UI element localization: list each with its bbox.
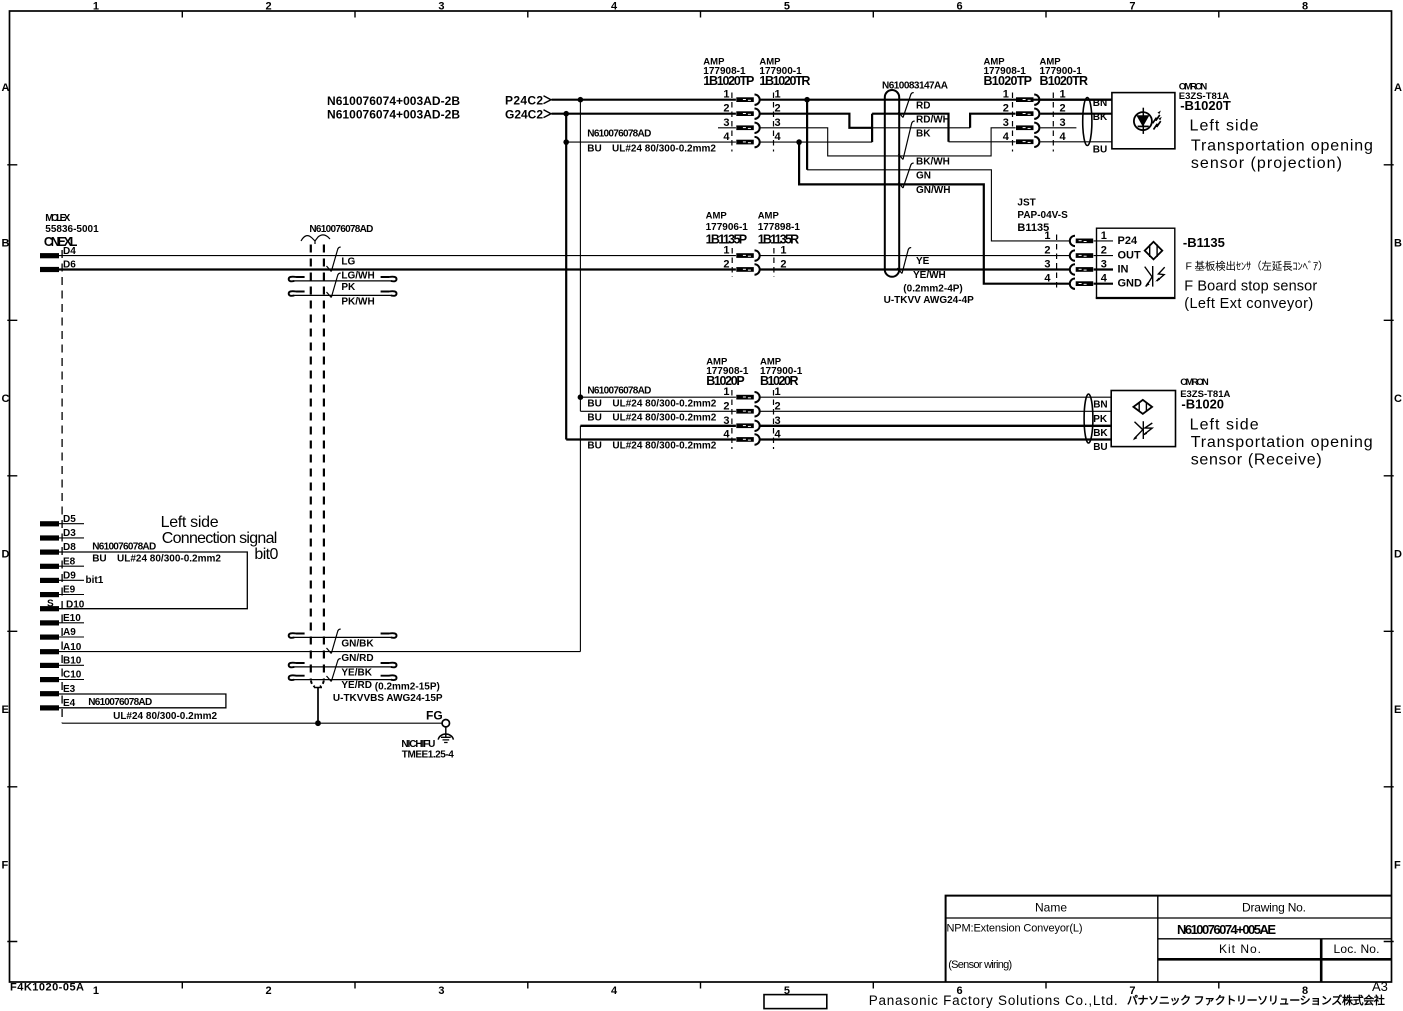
svg-text:B10: B10: [63, 656, 82, 667]
svg-text:1B1020TR: 1B1020TR: [759, 74, 810, 88]
svg-text:sensor (Receive): sensor (Receive): [1191, 452, 1322, 469]
wire B1020P pin2: [580, 410, 736, 412]
svg-text:D: D: [2, 549, 10, 561]
svg-text:4: 4: [723, 131, 730, 143]
wire RD/WH row2 continuation: [872, 114, 948, 142]
svg-text:2: 2: [1044, 245, 1050, 257]
B1020TP pin2: [1016, 109, 1039, 119]
svg-text:B: B: [1394, 238, 1402, 250]
svg-text:Left side: Left side: [1190, 417, 1259, 434]
svg-text:YE: YE: [916, 256, 930, 267]
B1020P pin4: [736, 434, 759, 444]
svg-text:BU: BU: [587, 413, 601, 424]
pin D5: [40, 521, 59, 526]
svg-text:UL#24 80/300-0.2mm2: UL#24 80/300-0.2mm2: [113, 711, 217, 722]
svg-text:3: 3: [723, 415, 729, 427]
svg-text:bit1: bit1: [86, 575, 104, 586]
jumper wire E3 to E4: [59, 694, 226, 708]
svg-text:Name: Name: [1035, 901, 1067, 915]
wire G24C2 row2: [552, 113, 736, 115]
frame column ticks bottom: [182, 982, 1219, 989]
svg-text:UL#24 80/300-0.2mm2: UL#24 80/300-0.2mm2: [612, 413, 716, 424]
svg-text:N610076074+003AD-2B: N610076074+003AD-2B: [327, 94, 460, 108]
connector 1B1020TP boundary dashed: [731, 93, 733, 152]
svg-text:YE/BK: YE/BK: [341, 668, 372, 679]
wire P24C2 drop to B1020P pins 1-2: [579, 100, 581, 412]
svg-text:1: 1: [723, 89, 729, 101]
svg-text:N610076078AD: N610076078AD: [309, 224, 373, 235]
svg-text:-B1135: -B1135: [1183, 235, 1225, 250]
junction shield/FG: [315, 720, 321, 726]
svg-text:P24: P24: [1118, 235, 1138, 247]
svg-text:7: 7: [1129, 1, 1135, 13]
junction P24 at B1020P pin1: [578, 394, 584, 400]
wire A10 rise to B1020P pin3: [579, 426, 581, 652]
svg-text:B1020TR: B1020TR: [1040, 74, 1089, 88]
wire BK to sensor B1020T: [1040, 113, 1112, 115]
svg-text:N610076078AD: N610076078AD: [587, 386, 651, 397]
svg-text:BK: BK: [916, 129, 931, 140]
pin C10: [40, 677, 59, 682]
svg-text:3: 3: [1003, 117, 1009, 129]
svg-text:Kit No.: Kit No.: [1219, 942, 1261, 956]
svg-text:E8: E8: [63, 556, 76, 567]
wire B1020P pin3 (BK): [580, 425, 736, 427]
svg-text:1B1020TP: 1B1020TP: [703, 74, 754, 88]
wire to 1B1020TP pin4: [566, 141, 736, 143]
cable sheath N610083147AA: [885, 90, 899, 270]
svg-text:3: 3: [723, 117, 729, 129]
junction GN/WH branch: [796, 139, 802, 145]
svg-text:Transportation opening: Transportation opening: [1191, 138, 1373, 155]
pigtail PK/WH: [289, 291, 305, 296]
wire GN horizontal to JST pin1: [807, 170, 1070, 241]
wire color leader PK pair: [331, 273, 340, 297]
svg-text:E3: E3: [63, 684, 76, 695]
svg-text:PAP-04V-S: PAP-04V-S: [1017, 210, 1068, 221]
svg-text:1: 1: [723, 386, 729, 398]
svg-text:2: 2: [266, 985, 272, 997]
pigtail YE/RD: [289, 675, 305, 680]
svg-text:1: 1: [1101, 230, 1107, 242]
svg-text:BN: BN: [1093, 400, 1107, 411]
frame row ticks right: [1384, 165, 1394, 942]
svg-text:D: D: [1394, 549, 1402, 561]
pin D4: [40, 253, 59, 258]
wire BU to sensor B1020T: [1040, 141, 1112, 143]
svg-text:N610076078AD: N610076078AD: [92, 542, 156, 553]
wire vertical row2-row4: [871, 114, 873, 142]
svg-text:BK: BK: [1093, 112, 1108, 123]
svg-text:AMP: AMP: [758, 211, 780, 222]
svg-text:F: F: [1394, 860, 1401, 872]
svg-text:D5: D5: [63, 514, 76, 525]
leader GN pair: [903, 163, 914, 188]
JST pin4: [1070, 279, 1093, 289]
wire GN drop: [806, 100, 808, 170]
JST pin3: [1070, 264, 1093, 274]
svg-text:1: 1: [775, 386, 781, 398]
svg-text:RD: RD: [916, 100, 930, 111]
svg-text:GN/BK: GN/BK: [341, 638, 374, 649]
svg-text:P24C2: P24C2: [505, 94, 543, 108]
svg-text:2: 2: [1003, 103, 1009, 115]
connector 1B1020TR boundary dashed: [773, 93, 775, 152]
junction P24C2 branch: [578, 97, 584, 103]
svg-text:BK/WH: BK/WH: [916, 157, 950, 168]
svg-text:3: 3: [1044, 259, 1050, 271]
1B1020TP pin2: [736, 109, 759, 119]
B1135 emitter diamond: [1145, 242, 1163, 260]
junction at 1B1020TP pin4: [563, 139, 569, 145]
connector B1020P boundary dashed: [731, 390, 733, 449]
svg-text:B1020TP: B1020TP: [984, 74, 1033, 88]
pin D3: [40, 535, 59, 540]
svg-text:BU: BU: [1093, 145, 1107, 156]
svg-text:G24C2: G24C2: [505, 107, 543, 121]
svg-text:4: 4: [611, 985, 618, 997]
svg-text:GN/RD: GN/RD: [341, 653, 373, 664]
wire BN to sensor B1020: [760, 396, 1111, 398]
pin D8: [40, 550, 59, 555]
svg-text:bit0: bit0: [254, 546, 278, 563]
frame row letters right: [1394, 82, 1402, 872]
svg-text:F: F: [2, 860, 9, 872]
svg-text:E9: E9: [63, 585, 76, 596]
svg-text:55836-5001: 55836-5001: [45, 224, 99, 235]
frame column numbers bottom: [93, 985, 1308, 997]
svg-text:A: A: [1394, 82, 1402, 94]
svg-text:C: C: [2, 393, 10, 405]
svg-text:UL#24 80/300-0.2mm2: UL#24 80/300-0.2mm2: [117, 553, 221, 564]
svg-text:GN: GN: [916, 171, 931, 182]
pin E3: [40, 691, 59, 696]
svg-text:BK: BK: [1093, 428, 1108, 439]
wire FG: [62, 722, 442, 724]
pin D6: [40, 267, 59, 272]
svg-text:U-TKVVBS AWG24-15P: U-TKVVBS AWG24-15P: [333, 693, 443, 704]
frame column ticks top: [182, 11, 1219, 18]
stub pin3 B1020TR: [1040, 127, 1076, 129]
svg-text:E10: E10: [63, 613, 81, 624]
pigtail PK: [289, 277, 305, 282]
cable sheath oval C: [1084, 394, 1093, 443]
svg-text:GND: GND: [1118, 278, 1143, 290]
svg-text:N610076074+005AE: N610076074+005AE: [1177, 922, 1276, 937]
wire BK/WH from 1B1020TR pin3: [760, 128, 1015, 156]
svg-text:(Sensor wiring): (Sensor wiring): [948, 959, 1012, 971]
connector 1B1135R boundary dashed: [773, 248, 775, 277]
wire color leader LG pair: [331, 247, 340, 271]
frame row letters left: [2, 82, 10, 872]
shield drain wire to FG: [317, 688, 319, 724]
svg-text:1: 1: [93, 985, 99, 997]
B1020TP pin4: [1016, 137, 1039, 147]
pin E9: [40, 592, 59, 597]
svg-text:OMRON: OMRON: [1180, 377, 1209, 388]
JST pin1: [1070, 236, 1093, 246]
cable sheath oval top: [1083, 98, 1092, 146]
frame row ticks left: [7, 165, 17, 942]
svg-text:UL#24 80/300-0.2mm2: UL#24 80/300-0.2mm2: [612, 441, 716, 452]
svg-text:PK: PK: [1093, 414, 1108, 425]
B1020P pin2: [736, 406, 759, 416]
svg-text:3: 3: [775, 117, 781, 129]
B1135 receiver symbol: [1152, 266, 1154, 287]
svg-text:LG: LG: [341, 257, 355, 268]
svg-text:YE/WH: YE/WH: [913, 270, 946, 281]
svg-text:(0.2mm2-4P): (0.2mm2-4P): [903, 283, 962, 294]
svg-text:N610076074+003AD-2B: N610076074+003AD-2B: [327, 108, 460, 122]
svg-text:B: B: [2, 238, 10, 250]
svg-text:3: 3: [438, 1, 444, 13]
B1020TP pin3: [1016, 123, 1039, 133]
svg-text:4: 4: [611, 1, 618, 13]
svg-text:sensor (projection): sensor (projection): [1191, 155, 1342, 172]
leader YE pair: [902, 248, 911, 274]
leader BK pair: [903, 121, 915, 159]
svg-text:D9: D9: [63, 571, 76, 582]
svg-text:NPM:Extension Conveyor(L): NPM:Extension Conveyor(L): [947, 923, 1083, 935]
connector B1020TP boundary dashed: [1012, 93, 1014, 152]
wire BU to sensor B1020: [760, 438, 1111, 440]
svg-text:YE/RD: YE/RD: [341, 680, 372, 691]
leader RD pair: [903, 93, 914, 118]
wire P24C2 row1: [552, 99, 736, 101]
svg-text:NICHIFU: NICHIFU: [401, 739, 435, 750]
wire D6 to 1B1135P pin2 (LG/WH): [59, 268, 736, 270]
1B1135P pin1: [736, 250, 759, 260]
wire BK rise to B1020TP pin2: [970, 114, 1016, 128]
B1020 receiver symbol: [1142, 421, 1144, 439]
pigtail GN/BK: [289, 633, 305, 638]
svg-text:Panasonic Factory Solutions Co: Panasonic Factory Solutions Co.,Ltd.: [869, 993, 1118, 1008]
B1020TP pin1: [1016, 95, 1039, 105]
pin B10: [40, 663, 59, 668]
wire row4 from 1B1020TR pin4: [760, 141, 872, 143]
svg-text:FG: FG: [426, 708, 443, 722]
wire YE/WH to JST pin3: [760, 268, 1070, 270]
svg-text:4: 4: [1003, 131, 1010, 143]
sensor box B1135: [1097, 228, 1175, 298]
svg-text:5: 5: [784, 1, 790, 13]
junction G24C2 branch: [563, 111, 569, 117]
svg-text:LG/WH: LG/WH: [341, 270, 374, 281]
LED emitter symbol: [1134, 112, 1152, 130]
svg-text:2: 2: [266, 1, 272, 13]
svg-text:BU: BU: [587, 441, 601, 452]
svg-text:Left side: Left side: [161, 514, 219, 531]
svg-text:F 基板検出ｾﾝｻ（左延長ｺﾝﾍﾞｱ）: F 基板検出ｾﾝｻ（左延長ｺﾝﾍﾞｱ）: [1186, 260, 1329, 273]
junction RD / GN branch: [804, 97, 810, 103]
svg-text:AMP: AMP: [706, 211, 728, 222]
leader YE/BK YE/RD pair: [331, 659, 340, 682]
svg-text:3: 3: [1060, 117, 1066, 129]
frame column numbers top: [93, 1, 1308, 13]
wire YE to JST pin2: [760, 255, 1070, 257]
svg-text:Transportation opening: Transportation opening: [1191, 434, 1373, 451]
connector CNEXL boundary dashed: [61, 250, 63, 723]
svg-text:PK: PK: [341, 282, 356, 293]
svg-text:1: 1: [93, 1, 99, 13]
svg-text:Left side: Left side: [1190, 118, 1259, 135]
JST pin2: [1070, 250, 1093, 260]
svg-text:BU: BU: [1093, 442, 1107, 453]
svg-text:(0.2mm2-15P): (0.2mm2-15P): [375, 682, 440, 693]
svg-text:E: E: [2, 704, 9, 716]
svg-text:F4K1020-05A: F4K1020-05A: [10, 982, 84, 994]
wire RD/WH row4 to B1020TP pin4: [949, 141, 1016, 143]
pin E4: [40, 705, 59, 710]
svg-text:F Board stop sensor: F Board stop sensor: [1184, 278, 1317, 294]
svg-text:-B1020T: -B1020T: [1180, 98, 1231, 113]
svg-text:6: 6: [957, 1, 963, 13]
pin E8: [40, 564, 59, 569]
1B1020TP pin1: [736, 95, 759, 105]
connector JST boundary dashed: [1056, 235, 1058, 291]
leader GN/BK GN/RD pair: [331, 629, 340, 653]
svg-text:N610076078AD: N610076078AD: [88, 697, 152, 708]
jumper wire D8 to D10: [59, 552, 247, 609]
svg-text:BU: BU: [587, 144, 601, 155]
wire G24C2 drop to 1B1020TP pin4 and B1020P pin4: [565, 114, 567, 440]
B1020P pin3: [736, 421, 759, 431]
svg-text:U-TKVV AWG24-4P: U-TKVV AWG24-4P: [884, 295, 975, 306]
wire BN to sensor B1020T: [1040, 99, 1112, 101]
pin D9: [40, 578, 59, 583]
svg-text:GN/WH: GN/WH: [916, 185, 950, 196]
wire BK row3: [872, 127, 970, 129]
svg-text:177906-1: 177906-1: [706, 222, 749, 233]
earth symbol: [445, 727, 447, 737]
wire G24C2 jog row2-row3: [760, 114, 872, 128]
svg-text:C: C: [1394, 393, 1402, 405]
svg-text:A3: A3: [1372, 979, 1388, 994]
shield dashed line 2: [323, 245, 325, 681]
B1020 emitter diamond: [1133, 400, 1152, 414]
shield merge Y: [311, 681, 324, 687]
svg-text:A: A: [2, 82, 10, 94]
svg-text:2: 2: [723, 400, 729, 412]
pin D10: [40, 606, 59, 611]
wire A10 (GN/RD): [59, 651, 580, 653]
svg-text:-B1020: -B1020: [1181, 397, 1224, 412]
pigtail YE/BK: [289, 663, 305, 668]
wire D4 to 1B1135P pin1 (LG): [59, 255, 736, 257]
svg-text:1: 1: [1003, 89, 1009, 101]
svg-text:A9: A9: [63, 627, 76, 638]
shield symbol: [301, 235, 330, 241]
svg-text:UL#24 80/300-0.2mm2: UL#24 80/300-0.2mm2: [612, 144, 716, 155]
svg-text:Loc. No.: Loc. No.: [1334, 942, 1380, 956]
wire PK to sensor B1020: [760, 410, 1111, 412]
svg-text:Connection signal: Connection signal: [162, 530, 277, 547]
1B1020TP pin3: [736, 123, 759, 133]
svg-text:パナソニック ファクトリーソリューションズ株式会社: パナソニック ファクトリーソリューションズ株式会社: [1127, 993, 1385, 1007]
svg-text:3: 3: [438, 985, 444, 997]
1B1020TP pin4: [736, 137, 759, 147]
pin A9: [40, 635, 59, 640]
svg-text:(Left Ext conveyor): (Left Ext conveyor): [1184, 296, 1313, 312]
svg-text:BU: BU: [587, 399, 601, 410]
svg-text:TMEE1.25-4: TMEE1.25-4: [402, 749, 454, 760]
svg-text:D3: D3: [63, 528, 76, 539]
wire RD row1 to sensor: [760, 99, 1112, 101]
svg-text:RD/WH: RD/WH: [916, 114, 950, 125]
svg-text:C10: C10: [63, 670, 82, 681]
svg-text:4: 4: [1044, 273, 1051, 285]
svg-text:BU: BU: [92, 553, 106, 564]
svg-text:Drawing No.: Drawing No.: [1242, 901, 1306, 915]
FG ring terminal: [442, 720, 449, 727]
sensor box B1020: [1111, 391, 1175, 447]
title block: [946, 896, 1392, 982]
sensor box B1020T: [1112, 93, 1175, 149]
svg-text:2: 2: [1101, 245, 1107, 257]
connector 1B1135P boundary dashed: [731, 248, 733, 277]
svg-text:UL#24 80/300-0.2mm2: UL#24 80/300-0.2mm2: [612, 399, 716, 410]
shield dashed line 1: [310, 245, 312, 681]
1B1135P pin2: [736, 264, 759, 274]
svg-text:JST: JST: [1017, 198, 1035, 209]
connector B1020TR boundary dashed: [1052, 93, 1054, 152]
svg-text:N610076078AD: N610076078AD: [587, 129, 651, 140]
svg-text:1: 1: [1044, 230, 1050, 242]
svg-text:4: 4: [1060, 131, 1067, 143]
svg-text:1: 1: [780, 245, 786, 257]
pin E10: [40, 620, 59, 625]
svg-text:2: 2: [775, 400, 781, 412]
svg-text:MOLEX: MOLEX: [45, 213, 70, 224]
wire GN/WH drop: [799, 142, 1070, 284]
svg-text:8: 8: [1302, 1, 1308, 13]
svg-text:PK/WH: PK/WH: [341, 296, 374, 307]
svg-text:1B1135R: 1B1135R: [758, 233, 800, 247]
svg-text:177898-1: 177898-1: [758, 222, 801, 233]
svg-text:1: 1: [723, 245, 729, 257]
svg-text:OUT: OUT: [1118, 250, 1142, 262]
wire B1020P pin1: [580, 396, 736, 398]
svg-text:2: 2: [723, 103, 729, 115]
svg-text:BN: BN: [1093, 98, 1107, 109]
pin A10: [40, 649, 59, 654]
wire B1020P pin4 (BU): [566, 438, 736, 440]
connector B1020R boundary dashed: [773, 390, 775, 449]
wire BK to sensor B1020: [760, 425, 1111, 427]
svg-text:2: 2: [723, 259, 729, 271]
revision box bottom: [764, 995, 827, 1009]
svg-text:IN: IN: [1118, 264, 1129, 276]
svg-text:E: E: [1394, 704, 1401, 716]
svg-text:4: 4: [775, 131, 782, 143]
svg-text:4: 4: [723, 429, 730, 441]
B1020P pin1: [736, 392, 759, 402]
